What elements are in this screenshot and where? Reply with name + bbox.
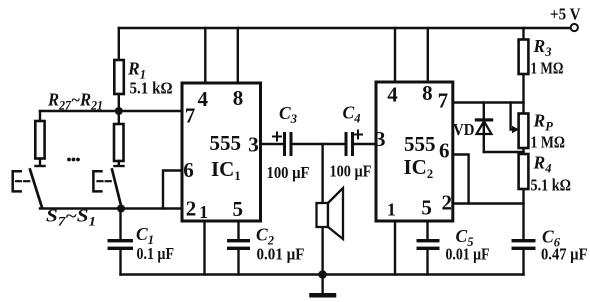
op-amp U2 IC2 555 box — [376, 82, 453, 221]
wire diode branch top — [483, 103, 485, 153]
svg-text:100 µF: 100 µF — [267, 163, 310, 182]
svg-text:1 MΩ: 1 MΩ — [531, 59, 564, 78]
wire speaker bottom lead — [321, 227, 323, 275]
wire IC1 pin1 lead — [203, 221, 205, 275]
svg-text:1: 1 — [199, 202, 208, 222]
svg-text:555: 555 — [210, 131, 242, 155]
svg-text:1: 1 — [387, 200, 396, 220]
dots between switch columns — [67, 158, 80, 162]
capacitor C6 — [512, 239, 536, 250]
switch S1 actuator dashed link — [98, 180, 113, 182]
wire left branch drop — [39, 111, 41, 121]
svg-text:5.1 kΩ: 5.1 kΩ — [130, 79, 173, 98]
switch S7 fixed contact tick — [36, 165, 45, 167]
switch S7 pushbutton actuator — [13, 171, 21, 191]
svg-text:R4: R4 — [533, 153, 552, 176]
svg-text:555: 555 — [404, 132, 436, 156]
wire C5 bottom lead — [426, 250, 428, 275]
wire C4 to IC2 pin3 — [354, 143, 376, 145]
svg-text:RP: RP — [533, 111, 554, 134]
wire IC2 pin1 lead — [394, 221, 396, 275]
svg-text:0.01 µF: 0.01 µF — [257, 245, 305, 264]
svg-text:+5 V: +5 V — [550, 5, 581, 24]
wire C3 to C4 — [293, 143, 345, 145]
resistor R27 — [35, 121, 44, 159]
svg-text:1 MΩ: 1 MΩ — [531, 133, 566, 152]
wire C2 bottom lead — [237, 250, 239, 275]
svg-text:8: 8 — [233, 86, 244, 110]
capacitor C2 — [227, 239, 250, 250]
svg-text:C3: C3 — [279, 103, 297, 126]
wire IC2 pin6 link — [453, 155, 469, 204]
svg-text:6: 6 — [183, 158, 194, 182]
switch S1 fixed contact tick — [115, 165, 124, 167]
wire R1 bottom lead to R21 — [118, 94, 120, 124]
wire IC1 pin5 lead — [237, 221, 239, 239]
capacitor C3 — [283, 132, 293, 156]
svg-text:R27~R21: R27~R21 — [47, 90, 103, 113]
resistor R4 — [519, 154, 529, 189]
wire R1 top lead — [118, 28, 120, 60]
switch S1 blade — [112, 170, 122, 208]
wire IC1 pin6 link — [163, 171, 182, 209]
diode VD — [475, 118, 493, 121]
svg-text:8: 8 — [422, 81, 433, 105]
wire Rp wiper — [511, 103, 514, 130]
svg-text:5.1 kΩ: 5.1 kΩ — [531, 176, 572, 195]
svg-text:3: 3 — [248, 133, 259, 157]
pin numbers IC2 — [375, 81, 452, 220]
svg-text:R3: R3 — [533, 36, 552, 59]
wire row pin2 / switch bottoms — [40, 207, 182, 209]
C4 plus polarity — [354, 131, 362, 139]
wire IC2 pin2 row — [453, 202, 524, 204]
wire IC2 pin4 lead — [394, 28, 396, 82]
svg-text:4: 4 — [198, 87, 209, 111]
wire IC1 pin8 lead — [237, 28, 239, 83]
svg-text:6: 6 — [439, 139, 450, 163]
wire IC2 pin7 row — [453, 101, 524, 103]
svg-text:0.01 µF: 0.01 µF — [446, 245, 490, 264]
svg-text:5: 5 — [421, 196, 432, 220]
switch S7 blade — [30, 170, 42, 208]
svg-text:5: 5 — [233, 197, 244, 221]
C3 plus polarity — [273, 133, 281, 141]
speaker BL — [317, 203, 329, 227]
op-amp U1 IC1 555 box — [182, 83, 261, 221]
svg-text:C4: C4 — [343, 103, 361, 126]
ground — [321, 275, 323, 294]
wire R27 bottom lead — [39, 159, 41, 165]
svg-text:VD: VD — [453, 120, 475, 139]
wire IC1 pin3 lead — [261, 143, 284, 145]
svg-text:7: 7 — [438, 89, 449, 113]
wire node row pin7 — [40, 110, 182, 112]
capacitor C5 — [417, 239, 440, 250]
resistor R3 — [519, 40, 529, 75]
wire top +5V rail — [119, 27, 571, 29]
switch S1 pushbutton actuator — [93, 171, 101, 191]
node junction switch row / C1 — [117, 205, 125, 213]
capacitor C4 — [345, 132, 355, 156]
svg-text:2: 2 — [441, 191, 452, 215]
wire R21 bottom lead — [118, 161, 120, 165]
resistor R1 — [114, 60, 124, 94]
svg-text:4: 4 — [387, 83, 398, 107]
potentiometer Rp — [519, 114, 529, 149]
wire IC1 pin4 lead — [204, 28, 206, 83]
wire bottom ground rail — [121, 273, 524, 275]
switch S7 actuator dashed link — [16, 180, 30, 182]
wire IC2 pin8 lead — [427, 28, 429, 82]
wire speaker top lead — [321, 144, 323, 203]
wire IC2 pin5 lead — [426, 221, 428, 239]
svg-text:3: 3 — [375, 127, 386, 151]
node junction speaker/ground — [318, 270, 327, 279]
wire diode bottom to rail — [484, 151, 524, 153]
pin numbers IC1 — [183, 86, 259, 222]
wire C1 bottom lead — [119, 250, 121, 275]
resistor R21 — [114, 124, 124, 161]
terminal +5V — [571, 24, 578, 31]
capacitor C1 — [108, 239, 134, 250]
wire C1 top lead — [119, 209, 121, 240]
wire right rail segments — [522, 28, 524, 275]
svg-text:0.1 µF: 0.1 µF — [137, 244, 175, 263]
svg-text:0.47 µF: 0.47 µF — [541, 245, 588, 264]
svg-text:2: 2 — [186, 197, 197, 221]
svg-text:7: 7 — [185, 104, 196, 128]
svg-text:100 µF: 100 µF — [330, 162, 372, 181]
node junction R1/pin7 row — [115, 107, 123, 115]
